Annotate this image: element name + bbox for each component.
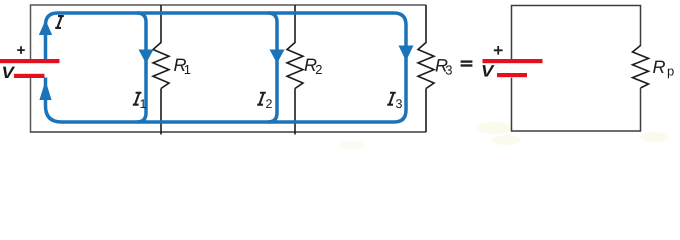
wire: R1 branch lower xyxy=(160,89,162,135)
svg-text:1: 1 xyxy=(140,97,147,111)
arrowhead I3 down xyxy=(399,46,414,62)
svg-text:R: R xyxy=(653,57,666,77)
current loop main (battery up, along top, down right branch, back along bottom) xyxy=(46,13,407,122)
arrowhead I2 down xyxy=(270,50,285,64)
wire: left circuit left side, above battery xyxy=(30,5,32,59)
svg-text:2: 2 xyxy=(266,97,273,111)
resistor R1 zigzag xyxy=(153,43,169,89)
svg-text:1: 1 xyxy=(184,62,191,77)
wire: right circuit right side, below Rp xyxy=(640,88,642,131)
jpeg artifact smudge 1 xyxy=(476,122,514,134)
wire: left circuit top xyxy=(30,4,426,6)
svg-text:V: V xyxy=(2,64,17,82)
battery V (right), positive plate xyxy=(483,59,543,63)
wire: left circuit bottom xyxy=(30,131,426,133)
equals sign xyxy=(461,60,473,62)
label I2 xyxy=(257,92,266,106)
svg-text:V: V xyxy=(481,63,496,81)
arrowhead I1 down xyxy=(139,50,154,64)
wire: left circuit left side, below battery xyxy=(30,78,32,132)
label I3 xyxy=(387,92,396,106)
jpeg artifact smudge 3 xyxy=(640,132,668,142)
wire: R2 branch upper xyxy=(294,5,296,43)
label I1 xyxy=(133,92,142,106)
battery V (left), positive plate xyxy=(0,59,60,63)
wire: right circuit left side, above battery xyxy=(511,6,513,60)
label I (total current) xyxy=(55,15,64,29)
svg-text:p: p xyxy=(667,63,674,78)
jpeg artifact smudge 2 xyxy=(491,135,521,145)
arrowhead up (battery bottom stub) xyxy=(39,81,51,101)
svg-text:2: 2 xyxy=(315,62,322,77)
battery V (left), negative plate xyxy=(14,74,45,78)
arrowhead I up (battery top stub) xyxy=(39,20,52,35)
jpeg artifact smudge 4 xyxy=(339,141,365,149)
current branch I1 xyxy=(137,13,146,122)
wire: R3 branch upper (right edge of left circuit) xyxy=(425,5,427,43)
label + (right battery) xyxy=(494,46,503,55)
current branch I2 xyxy=(268,13,277,122)
label + (left battery) xyxy=(17,46,25,54)
wire: R3 branch lower xyxy=(425,89,427,133)
svg-text:3: 3 xyxy=(396,97,403,111)
battery V (right), negative plate xyxy=(497,73,527,77)
svg-text:3: 3 xyxy=(445,63,452,78)
wire: R1 branch upper xyxy=(160,5,162,43)
resistor R3 zigzag xyxy=(418,43,434,89)
wire: right circuit bottom xyxy=(511,130,641,132)
wire: right circuit right side, above Rp xyxy=(640,6,642,47)
wire: right circuit top xyxy=(511,5,641,7)
resistor Rp zigzag xyxy=(633,46,649,89)
wire: right circuit left side, below battery xyxy=(511,78,513,131)
wire: R2 branch lower xyxy=(294,89,296,135)
resistor R2 zigzag xyxy=(287,43,303,89)
